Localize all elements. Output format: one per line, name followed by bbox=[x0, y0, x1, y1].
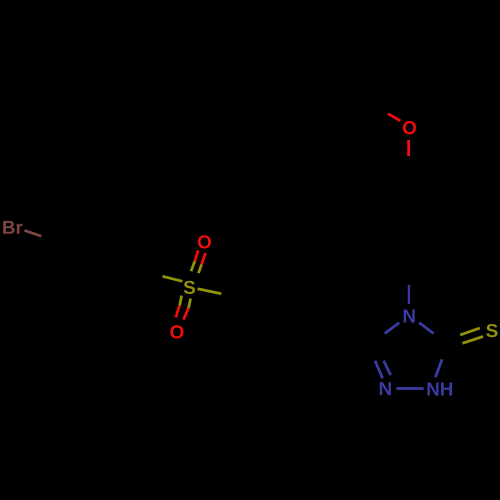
bond S=O top, left line, sulfur half bbox=[191, 261, 195, 271]
atom Br label, letter B bbox=[3, 221, 14, 234]
atom N1 label bbox=[380, 382, 391, 395]
bond N4-C5 stub (nitrogen half) bbox=[385, 323, 400, 334]
atom Br label, letter r bbox=[17, 224, 23, 234]
bond C3=S thione, upper line, sulfur half bbox=[460, 328, 480, 335]
atom O (sulfonyl bottom) label bbox=[170, 325, 183, 338]
atom O (sulfonyl top) label bbox=[198, 235, 211, 248]
bond Br-C stub (bromine half) bbox=[25, 230, 42, 236]
bond S=O bottom, left line, oxygen half bbox=[176, 306, 180, 318]
bond N4-C3 stub (nitrogen half) bbox=[419, 323, 434, 334]
bond C3=S thione, lower line, sulfur half bbox=[462, 337, 483, 344]
bond O-C(aryl) stub (oxygen half) bbox=[407, 140, 410, 156]
bond N2-C3 stub (nitrogen half) bbox=[435, 359, 442, 377]
bond S=O bottom, right line, sulfur half bbox=[189, 299, 191, 308]
bond S-C(aryl left) stub (sulfur half) bbox=[163, 276, 183, 281]
atom S (sulfonyl) label bbox=[184, 281, 195, 294]
bond C5=N1, main line, nitrogen half bbox=[375, 361, 382, 379]
bond S-C(aryl right) stub (sulfur half) bbox=[198, 289, 222, 294]
bond S=O bottom, left line, sulfur half bbox=[180, 296, 182, 306]
bond C5=N1, inner line, nitrogen half bbox=[384, 361, 391, 375]
atom O (methoxy) label bbox=[403, 121, 416, 134]
atom H label (of NH) bbox=[441, 383, 452, 396]
bond S=O top, left line, oxygen half bbox=[195, 250, 198, 261]
bond S=O bottom, right line, oxygen half bbox=[184, 308, 189, 320]
atom N2 label (of NH) bbox=[427, 383, 438, 396]
atom S (thione) label bbox=[486, 324, 497, 337]
atom N4 label bbox=[404, 310, 415, 323]
bond S=O top, right line, sulfur half bbox=[198, 264, 201, 273]
bond N1-N2 bbox=[396, 387, 423, 390]
bond S=O top, right line, oxygen half bbox=[202, 253, 206, 264]
bond N4-C(aryl) stub (nitrogen half) bbox=[408, 285, 410, 304]
bond O-CH3 stub (oxygen half) bbox=[388, 114, 401, 121]
